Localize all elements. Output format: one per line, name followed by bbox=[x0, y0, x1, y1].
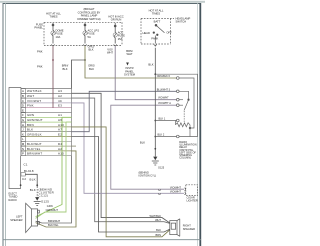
svg-text:IGNITION CYL): IGNITION CYL) bbox=[139, 175, 157, 178]
svg-text:10A: 10A bbox=[56, 35, 61, 39]
svg-text:BLK 1: BLK 1 bbox=[159, 118, 166, 121]
svg-text:RADIO: RADIO bbox=[9, 198, 17, 202]
svg-text:5A: 5A bbox=[88, 35, 91, 39]
svg-text:BLK: BLK bbox=[30, 177, 36, 181]
svg-text:P: P bbox=[22, 152, 24, 156]
svg-text:SPEAKER: SPEAKER bbox=[10, 218, 22, 222]
svg-text:BRN/WHT: BRN/WHT bbox=[27, 152, 42, 156]
svg-text:A3: A3 bbox=[58, 89, 62, 93]
svg-text:A6: A6 bbox=[58, 118, 62, 122]
svg-text:L: L bbox=[22, 137, 24, 141]
svg-text:H: H bbox=[22, 123, 24, 127]
svg-text:WHT: WHT bbox=[107, 51, 113, 55]
svg-text:LIGHTER: LIGHTER bbox=[187, 199, 198, 203]
svg-text:CC12): CC12) bbox=[39, 194, 49, 198]
svg-text:GRN: GRN bbox=[47, 204, 53, 208]
svg-text:E: E bbox=[22, 108, 24, 112]
svg-text:A2: A2 bbox=[58, 94, 62, 98]
svg-text:M: M bbox=[22, 142, 25, 146]
svg-text:BRN: BRN bbox=[156, 233, 162, 237]
svg-text:WHT: WHT bbox=[27, 94, 34, 98]
svg-text:WHT: WHT bbox=[126, 52, 132, 56]
svg-text:RIGHT: RIGHT bbox=[183, 224, 191, 228]
svg-text:BLK: BLK bbox=[27, 128, 33, 132]
svg-text:BLK 2: BLK 2 bbox=[158, 134, 165, 137]
svg-text:OR RUN: OR RUN bbox=[111, 18, 122, 22]
svg-text:PNK: PNK bbox=[37, 65, 43, 69]
svg-text:BRN: BRN bbox=[27, 123, 34, 127]
svg-text:WHT/BLK: WHT/BLK bbox=[149, 214, 161, 218]
svg-text:F: F bbox=[22, 113, 24, 117]
svg-text:BLK/YEL: BLK/YEL bbox=[27, 147, 41, 151]
svg-text:ORG/BLK 6: ORG/BLK 6 bbox=[157, 75, 171, 78]
svg-text:B: B bbox=[22, 94, 24, 98]
svg-text:BRN/WHT: BRN/WHT bbox=[48, 219, 61, 223]
svg-text:25A: 25A bbox=[118, 37, 123, 41]
svg-text:HEAD: HEAD bbox=[142, 31, 150, 35]
svg-text:BLK/YEL: BLK/YEL bbox=[48, 223, 59, 227]
svg-text:GRN/WHT: GRN/WHT bbox=[46, 208, 59, 212]
svg-text:SYSTEM: SYSTEM bbox=[124, 73, 136, 77]
svg-text:E3: E3 bbox=[58, 104, 62, 108]
svg-text:G125: G125 bbox=[41, 200, 49, 204]
svg-text:ORG/BLK: ORG/BLK bbox=[27, 132, 42, 136]
svg-text:BLK: BLK bbox=[30, 188, 36, 192]
svg-text:A2: A2 bbox=[58, 147, 62, 151]
svg-text:TIMES: TIMES bbox=[152, 12, 160, 16]
svg-text:D: D bbox=[22, 104, 24, 108]
svg-text:SPEAKER: SPEAKER bbox=[183, 227, 195, 231]
svg-text:VIO/WHT: VIO/WHT bbox=[158, 97, 169, 100]
svg-text:BLU/WHT 3: BLU/WHT 3 bbox=[157, 88, 171, 91]
svg-text:BLK: BLK bbox=[156, 228, 161, 232]
svg-text:VIO/WHT: VIO/WHT bbox=[27, 99, 41, 103]
svg-text:E2: E2 bbox=[58, 132, 62, 136]
svg-text:4C: 4C bbox=[58, 99, 62, 103]
svg-text:D4: D4 bbox=[58, 142, 62, 146]
svg-text:VIO/WHT: VIO/WHT bbox=[170, 190, 182, 194]
svg-text:OFF: OFF bbox=[166, 30, 172, 34]
svg-text:BLK: BLK bbox=[89, 67, 94, 71]
svg-text:BLK: BLK bbox=[148, 63, 153, 67]
svg-text:GRN/WHT: GRN/WHT bbox=[27, 118, 43, 122]
svg-text:A13: A13 bbox=[58, 123, 64, 127]
svg-text:N: N bbox=[22, 147, 24, 151]
svg-text:WHT: WHT bbox=[155, 218, 161, 222]
svg-text:WHT/BLK: WHT/BLK bbox=[27, 89, 42, 93]
svg-text:A1: A1 bbox=[58, 113, 62, 117]
svg-text:PNK: PNK bbox=[37, 50, 43, 54]
svg-text:BLK/WHT: BLK/WHT bbox=[27, 142, 42, 146]
svg-text:A7: A7 bbox=[58, 128, 62, 132]
svg-text:PNK: PNK bbox=[27, 104, 34, 108]
svg-text:BLK: BLK bbox=[140, 141, 145, 145]
svg-text:C1: C1 bbox=[24, 162, 28, 166]
svg-text:A10: A10 bbox=[58, 152, 64, 156]
svg-text:VIO/WHT: VIO/WHT bbox=[170, 185, 182, 189]
svg-text:18: 18 bbox=[30, 169, 34, 173]
svg-text:J: J bbox=[22, 128, 24, 132]
svg-text:TIMES: TIMES bbox=[49, 15, 57, 19]
svg-text:PARK: PARK bbox=[151, 37, 158, 41]
svg-text:DIMMER SWITCH): DIMMER SWITCH) bbox=[77, 17, 100, 21]
svg-text:K: K bbox=[22, 132, 24, 136]
svg-text:SWITCH: SWITCH bbox=[176, 20, 187, 24]
svg-text:PANEL: PANEL bbox=[34, 26, 43, 30]
svg-text:GRN: GRN bbox=[27, 113, 34, 117]
svg-text:C2: C2 bbox=[22, 177, 26, 181]
svg-text:G125: G125 bbox=[158, 166, 165, 169]
svg-text:BLK: BLK bbox=[88, 48, 93, 52]
svg-text:C: C bbox=[22, 99, 24, 103]
svg-text:BLK: BLK bbox=[62, 67, 67, 71]
svg-text:VIO/WHT A: VIO/WHT A bbox=[158, 102, 171, 105]
svg-text:A: A bbox=[22, 89, 24, 93]
svg-text:COLUMN): COLUMN) bbox=[179, 157, 191, 160]
svg-text:BATT: BATT bbox=[154, 20, 161, 24]
